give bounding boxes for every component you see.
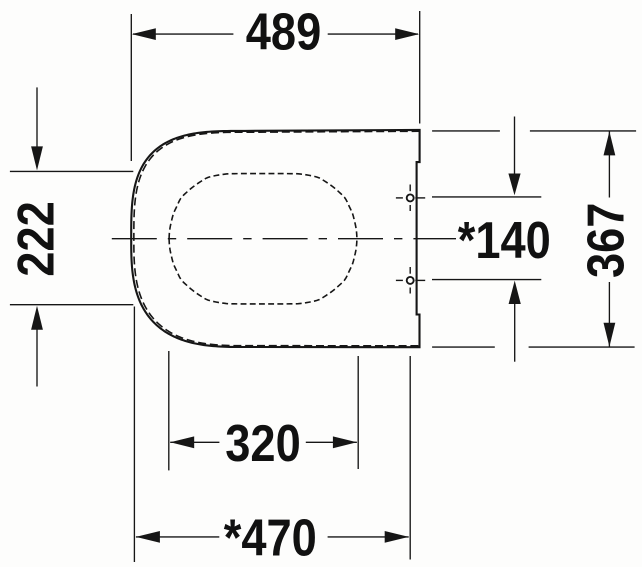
hinge hole bottom: crosshair left tick (396, 279, 403, 281)
dim 367: top reference line (right of arrow line) (530, 130, 636, 132)
hinge hole bottom: crosshair upper tick (409, 267, 411, 274)
hinge hole top: crosshair lower tick (409, 205, 411, 211)
dim 320: right extension line (357, 356, 359, 469)
dim 222: upper arrow line (36, 87, 38, 150)
dim *140: down arrowhead (508, 174, 520, 196)
svg-text:489: 489 (246, 4, 321, 62)
dim 367: dimension line upper segment (608, 131, 610, 197)
dim 489: dimension line left segment (133, 33, 233, 35)
dim 222: lower arrow line (36, 326, 38, 387)
dim 367: down arrowhead (604, 323, 616, 347)
dim 320: dimension line left segment (170, 441, 219, 443)
dim *470: right arrowhead (385, 531, 409, 543)
dim 489: right extension line (419, 11, 421, 124)
dim *470: left arrowhead (136, 531, 160, 543)
svg-text:*140: *140 (458, 212, 551, 270)
dim 367: bottom reference line (left of arrow line) (432, 346, 495, 348)
svg-text:222: 222 (8, 201, 66, 276)
hinge hole bottom: circle (407, 277, 414, 284)
dim 489: right arrowhead (395, 28, 419, 40)
dim *140: lower reference line (hinge hole axis) (432, 279, 541, 281)
dim 222: upper reference line (10, 170, 133, 172)
dim *470: dimension line right segment (328, 536, 409, 538)
dim 489: left arrowhead (132, 28, 156, 40)
dim 367: top reference line (left of arrow line) (432, 130, 500, 132)
dim 489: left extension line (130, 14, 132, 161)
svg-text:320: 320 (225, 415, 300, 473)
dim *140: upper reference line (hinge hole axis) (432, 196, 541, 198)
dim 367: bottom reference line (right of arrow line) (529, 346, 635, 348)
svg-text:*470: *470 (224, 510, 317, 567)
dim 222: down arrowhead (31, 146, 43, 170)
hinge hole top: circle (407, 194, 414, 201)
dim 489: dimension line right segment (328, 33, 418, 35)
dim 367: up arrowhead (604, 131, 616, 155)
horizontal centerline (112, 238, 456, 240)
dim 222: up arrowhead (31, 306, 43, 330)
dim *140: up arrowhead (509, 281, 521, 304)
hinge hole bottom: crosshair right tick (415, 279, 425, 281)
seat inner dashed contour (134, 131, 420, 346)
hinge hole top: crosshair left tick (396, 197, 403, 199)
dim 320: dimension line right segment (306, 441, 357, 443)
hinge hole bottom: crosshair lower tick (409, 288, 411, 294)
dim *140: upper arrow line (514, 117, 516, 178)
hinge hole top: crosshair right tick (415, 197, 425, 199)
seat outer outline (131, 130, 419, 347)
hinge hole top: crosshair upper tick (409, 185, 411, 192)
dim *470: dimension line left segment (136, 536, 219, 538)
dim 320: left extension line (168, 351, 170, 470)
dim 320: right arrowhead (333, 436, 357, 448)
dim *140: lower arrow line (514, 303, 516, 362)
svg-text:367: 367 (578, 203, 636, 278)
dim *470: right extension line (hinge axis) (409, 356, 411, 560)
seat opening dotted oval (169, 174, 357, 304)
dim 320: left arrowhead (170, 436, 194, 448)
dim *470: left extension line (133, 307, 135, 563)
dim 367: dimension line lower segment (608, 282, 610, 347)
dim 222: lower reference line (10, 304, 133, 306)
